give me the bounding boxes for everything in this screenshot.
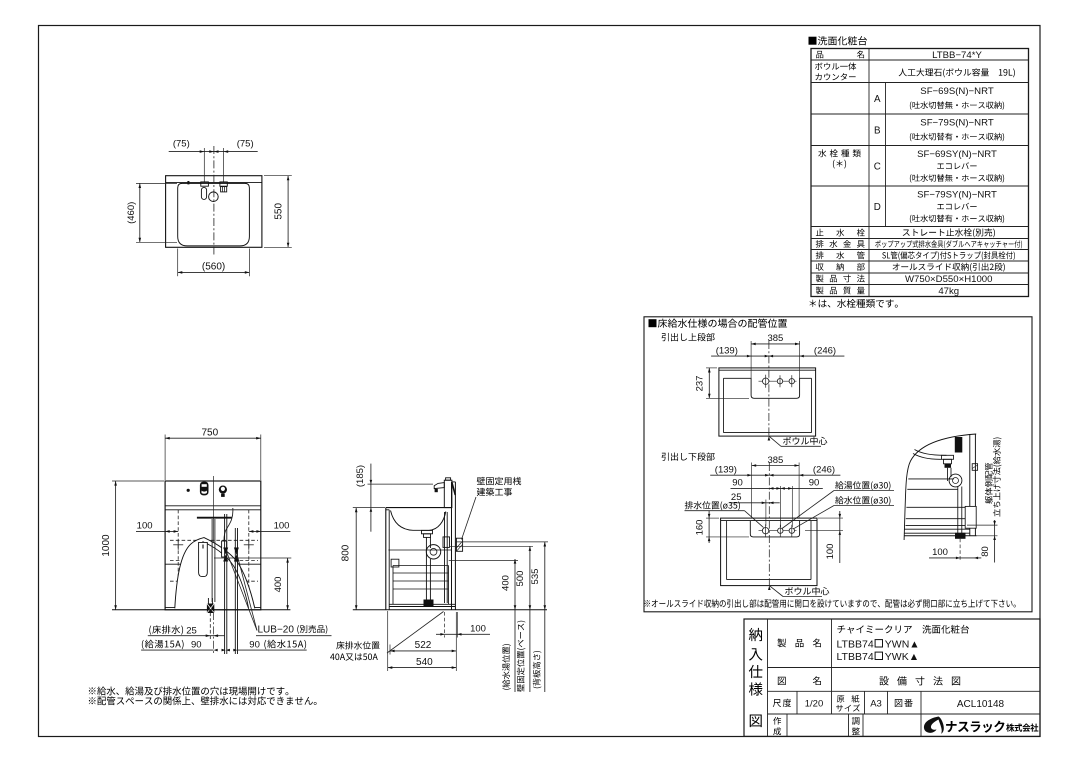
svg-text:(185): (185) <box>355 465 366 487</box>
title block 尺度 <box>773 699 823 710</box>
svg-text:1/20: 1/20 <box>805 699 824 710</box>
svg-text:(460): (460) <box>126 202 137 224</box>
svg-text:237: 237 <box>695 376 706 392</box>
spec row D <box>874 190 1004 224</box>
svg-text:750: 750 <box>201 428 218 439</box>
side label 床排水位置 <box>330 612 443 661</box>
svg-text:(75): (75) <box>173 138 190 149</box>
front dim 100 left <box>136 521 178 533</box>
svg-text:(560): (560) <box>202 262 225 273</box>
svg-text:385: 385 <box>767 333 783 344</box>
svg-text:25: 25 <box>186 625 197 636</box>
front view drain hose curve <box>224 508 233 541</box>
front view center line <box>213 476 215 610</box>
spec row 品名 <box>816 50 982 61</box>
svg-text:(139): (139) <box>716 345 738 356</box>
svg-text:1000: 1000 <box>101 534 112 557</box>
front label LUB-20 <box>226 550 332 636</box>
front view counter lines <box>165 506 261 510</box>
lower dim 385 <box>752 455 800 518</box>
title block product names <box>837 625 970 663</box>
piping label 引出し上段部 <box>662 333 715 341</box>
svg-text:SF−69S(N)−NRT: SF−69S(N)−NRT <box>920 86 994 97</box>
front view hot stop valve <box>223 548 228 562</box>
plan view centerline <box>213 146 215 255</box>
svg-text:522: 522 <box>415 640 432 651</box>
detail bowl curve <box>913 450 947 460</box>
plan view bowl outline <box>178 183 250 246</box>
lower label 排水位置 <box>685 501 764 527</box>
svg-text:90: 90 <box>191 640 202 651</box>
spec row 排水管 <box>816 251 1015 260</box>
front view notes <box>89 686 317 705</box>
svg-text:(246): (246) <box>813 464 835 475</box>
front floor line <box>112 609 290 611</box>
piping note <box>645 599 1016 608</box>
svg-text:A: A <box>874 94 881 105</box>
svg-text:535: 535 <box>530 569 541 585</box>
svg-text:LTBB−74*Y: LTBB−74*Y <box>932 50 982 61</box>
plan view faucet symbol left <box>201 182 209 200</box>
plan view drain knob <box>209 192 219 202</box>
svg-text:540: 540 <box>416 657 433 668</box>
svg-text:SF−79SY(N)−NRT: SF−79SY(N)−NRT <box>917 190 997 201</box>
lower dim 25 <box>730 492 780 526</box>
detail vertical labels <box>985 437 1002 516</box>
plan view counter outline <box>166 176 262 248</box>
title block 調整 <box>852 717 860 735</box>
lower label 給水位置 <box>794 496 895 529</box>
front view pipe space dashed lines <box>170 510 258 608</box>
front dim (床排水)25 <box>148 612 225 654</box>
detail drawer lines <box>904 479 977 536</box>
front view hot supply pipe <box>225 514 227 654</box>
side view wall batten <box>456 538 462 551</box>
svg-text:100: 100 <box>825 544 836 560</box>
plan dim (460) <box>126 183 177 242</box>
side view bowl profile <box>391 511 446 531</box>
lower dim 90 90 <box>731 478 823 527</box>
lower center line <box>768 463 770 586</box>
title block 原紙サイズ <box>836 695 860 712</box>
svg-text:SF−69SY(N)−NRT: SF−69SY(N)−NRT <box>917 149 997 160</box>
nasluck logo mark <box>924 717 944 734</box>
front view cold supply pipe <box>235 528 237 654</box>
front dim 400 <box>214 558 291 610</box>
spec row 製品寸法 <box>816 274 993 285</box>
svg-text:LTBB74: LTBB74 <box>837 651 874 663</box>
svg-text:(246): (246) <box>814 345 836 356</box>
svg-text:YWK▲: YWK▲ <box>885 651 919 663</box>
spec table grid <box>811 49 1029 297</box>
spec table title ■洗面化粧台 <box>809 36 868 45</box>
lower dim 160 <box>694 511 749 543</box>
front view base line <box>165 607 261 609</box>
svg-text:LUB−20: LUB−20 <box>258 625 295 636</box>
svg-text:400: 400 <box>500 575 511 591</box>
detail break line <box>904 434 976 540</box>
svg-text:YWN▲: YWN▲ <box>885 638 920 650</box>
svg-text:90: 90 <box>249 640 260 651</box>
upper dim (139)(246) <box>711 345 844 357</box>
lower drawer cutout <box>750 521 799 537</box>
front view trap bell curve <box>175 538 255 609</box>
front view drain pipe <box>212 519 215 602</box>
side floor line <box>353 609 547 611</box>
side dim 522 <box>390 640 456 654</box>
side dim 400 right <box>449 559 518 692</box>
nasluck logo text <box>946 721 1038 733</box>
spec row 収納部 <box>816 263 1005 272</box>
piping label 引出し下段部 <box>662 452 715 460</box>
side dim 540 <box>388 611 457 671</box>
side dim 800 <box>340 508 385 610</box>
side label 壁固定用桟建築工事 <box>462 477 522 540</box>
front dim 給水15A 90 right <box>226 640 307 652</box>
upper drawer box <box>719 368 816 436</box>
front view faucet set <box>187 482 227 497</box>
lower drawer box <box>721 518 817 586</box>
front view drawer divider <box>165 563 261 565</box>
upper drawer cutout liner <box>724 378 812 398</box>
plan view counter mark <box>187 181 189 184</box>
side view faucet <box>434 478 455 508</box>
svg-text:100: 100 <box>470 624 486 635</box>
lower pipe holes <box>759 524 797 537</box>
plan dim (75)(75) <box>169 138 258 181</box>
side view backboard <box>452 482 456 610</box>
spec row 製品質量 <box>816 286 959 297</box>
svg-text:SF−79S(N)−NRT: SF−79S(N)−NRT <box>920 118 994 129</box>
svg-text:47kg: 47kg <box>938 286 959 297</box>
front view hose end tube <box>222 541 227 557</box>
title block 納入仕様図 <box>749 628 763 727</box>
title block 製品名 <box>777 638 821 647</box>
svg-text:500: 500 <box>515 571 526 587</box>
side view drain assembly <box>422 512 450 606</box>
svg-text:800: 800 <box>340 544 351 561</box>
svg-text:A3: A3 <box>870 699 882 710</box>
front dim 100 right <box>249 521 291 533</box>
spec row B <box>874 118 1004 142</box>
lower label ボウル中心 <box>768 586 829 597</box>
detail back panel <box>970 434 976 536</box>
spec row 水栓種類 label <box>818 149 861 168</box>
title block 作成 <box>773 717 781 735</box>
svg-text:ACL10148: ACL10148 <box>957 699 1005 710</box>
side view wall box <box>391 559 399 567</box>
side dim 535 right <box>456 542 548 692</box>
front view drill cross marks <box>173 540 254 550</box>
svg-text:B: B <box>874 125 881 136</box>
upper label ボウル中心 <box>768 436 828 446</box>
svg-text:C: C <box>874 161 881 172</box>
plan dim 550 <box>264 176 292 248</box>
spec table footnote <box>809 299 897 308</box>
side dim 100 <box>436 612 490 638</box>
detail batten <box>972 464 977 471</box>
upper center line <box>768 341 770 437</box>
svg-text:400: 400 <box>273 577 284 593</box>
svg-text:(139): (139) <box>715 464 737 475</box>
title block frame <box>744 619 1040 736</box>
title block grid <box>768 619 1041 736</box>
front view floor drain <box>207 598 214 639</box>
svg-text:D: D <box>874 202 881 213</box>
svg-text:100: 100 <box>932 547 948 558</box>
side view cabinet outline <box>386 482 452 610</box>
svg-text:100: 100 <box>137 521 153 532</box>
lower dim (139)(246) <box>710 464 840 476</box>
svg-text:100: 100 <box>274 521 290 532</box>
title block 図番 <box>895 699 1005 710</box>
svg-text:385: 385 <box>767 455 783 466</box>
front view bowl bottom <box>197 517 232 519</box>
svg-text:W750×D550×H1000: W750×D550×H1000 <box>905 274 992 285</box>
svg-text:160: 160 <box>694 520 705 536</box>
spec row A <box>874 86 1004 110</box>
piping section box <box>644 317 1032 612</box>
front dim 1000 <box>101 481 164 610</box>
front view cabinet outline <box>165 481 261 610</box>
lower label 給湯位置 <box>782 481 894 528</box>
spec row C <box>874 149 1004 183</box>
svg-text:90: 90 <box>809 478 820 489</box>
svg-text:LTBB74: LTBB74 <box>837 638 874 650</box>
svg-text:550: 550 <box>273 203 284 220</box>
front dim 給湯15A 90 left <box>141 640 226 652</box>
upper dim 237 <box>695 368 749 398</box>
upper dim 385 <box>751 333 800 378</box>
front view trap outlet inner line <box>203 542 249 609</box>
title block 図名 <box>778 676 821 685</box>
plan dim (560) <box>178 249 250 277</box>
plan view faucet symbol right <box>220 182 227 192</box>
spec row 止水栓 <box>816 228 995 237</box>
detail dim 80 <box>967 520 998 563</box>
spec row 排水金具 <box>816 240 1022 249</box>
front view cold stop valve <box>234 548 239 562</box>
piping title <box>649 319 788 328</box>
svg-text:(75): (75) <box>237 138 254 149</box>
side dim (185) <box>355 464 433 532</box>
upper pipe holes <box>759 375 797 388</box>
svg-text:90: 90 <box>732 478 743 489</box>
title block A3 <box>870 699 882 710</box>
spec row ボウル一体カウンター <box>815 62 1015 80</box>
detail dim 100 <box>929 539 981 561</box>
title block 設備寸法図 <box>879 676 960 685</box>
side view interior rails <box>388 550 455 607</box>
front view overflow standpipe <box>199 542 208 576</box>
front dim 750 <box>165 428 261 480</box>
lower dim 100 <box>805 511 843 563</box>
side vertical labels <box>502 621 541 692</box>
svg-text:80: 80 <box>980 546 991 557</box>
svg-text:25: 25 <box>731 492 742 503</box>
side dim 500 right <box>450 546 533 692</box>
detail drain trap <box>942 437 966 539</box>
